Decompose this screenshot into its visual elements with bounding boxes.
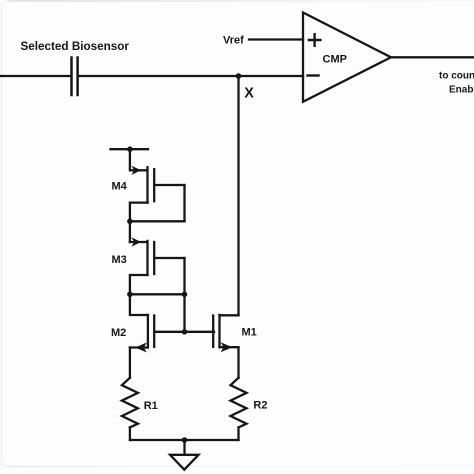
wire: node X down to transistor M1 drain <box>237 76 239 315</box>
wire: bottom rail <box>130 439 239 441</box>
svg-text:to counter: to counter <box>439 71 474 82</box>
svg-text:Selected Biosensor: Selected Biosensor <box>21 40 130 53</box>
svg-text:M4: M4 <box>112 181 128 193</box>
resistor R2 <box>231 378 247 428</box>
supply rail bar above M4 <box>111 148 149 150</box>
wire: R2 to bottom rail <box>237 427 239 440</box>
capacitor C (biosensor) <box>72 58 78 96</box>
svg-text:CMP: CMP <box>323 54 347 66</box>
svg-text:X: X <box>244 86 254 102</box>
svg-text:Vref: Vref <box>223 35 244 47</box>
minus symbol at CMP input <box>308 74 319 76</box>
op-amp U1 comparator CMP triangle <box>303 13 391 102</box>
svg-text:M1: M1 <box>242 327 257 339</box>
ground <box>183 440 185 455</box>
svg-text:Enable: Enable <box>449 85 474 96</box>
junction dot gate wire <box>182 329 188 335</box>
wire: comparator output to counter <box>391 56 474 58</box>
wire: M2 gate to M1 gate <box>154 331 214 333</box>
resistor R1 <box>122 378 138 428</box>
transistor M1 <box>213 315 238 378</box>
transistor M2 <box>130 294 154 378</box>
junction dot M3 source node <box>127 292 133 298</box>
wire: main biosensor line left of capacitor <box>0 75 70 77</box>
node X junction dot <box>236 73 242 79</box>
wire: gate tie down to M2/M1 gate line <box>183 294 185 332</box>
junction dot bottom rail <box>182 437 188 443</box>
wire: M3 source to gate tie <box>130 293 185 295</box>
svg-text:R2: R2 <box>253 400 267 412</box>
wire: M4 source to M3 drain <box>129 221 131 242</box>
transistor M4 (diode-connected, source lead arrow) <box>130 149 185 221</box>
junction dot M3 gate tie node <box>182 292 188 298</box>
wire: main line from capacitor to comparator minus input <box>79 75 303 77</box>
wire: R1 to bottom rail <box>129 427 131 440</box>
plus symbol at CMP input <box>309 34 321 46</box>
svg-text:M3: M3 <box>112 254 127 266</box>
svg-text:R1: R1 <box>144 400 158 412</box>
transistor M3 (diode-connected) <box>130 237 185 294</box>
wire: Vref to comparator plus input <box>249 38 303 40</box>
junction dot M4 gate/source node <box>127 219 133 225</box>
svg-text:M2: M2 <box>111 327 126 339</box>
junction dot on supply rail <box>127 146 133 152</box>
